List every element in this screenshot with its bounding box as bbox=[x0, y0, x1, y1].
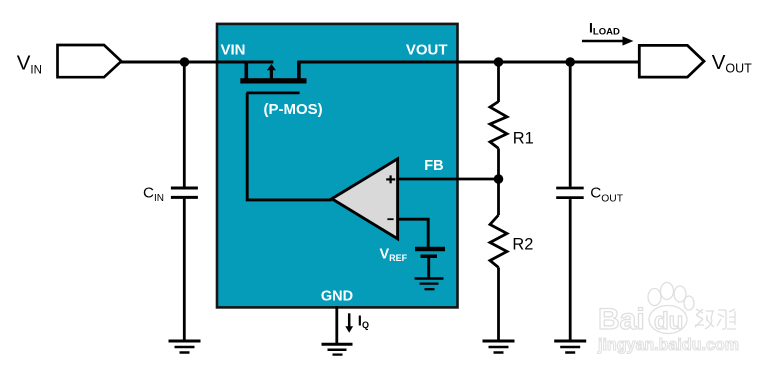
current ILOAD arrow bbox=[582, 40, 624, 42]
svg-text:VIN: VIN bbox=[221, 42, 246, 59]
wire R2 bottom bbox=[497, 267, 500, 341]
node VIN junction bbox=[180, 57, 190, 67]
wire output rail bbox=[297, 60, 639, 63]
svg-text:VIN: VIN bbox=[17, 51, 42, 76]
wire CIN to ground bbox=[183, 199, 186, 340]
ground under COUT bbox=[554, 340, 586, 343]
wire COUT to ground bbox=[569, 199, 572, 341]
svg-text:FB: FB bbox=[424, 158, 443, 174]
resistor R1 bbox=[490, 102, 507, 149]
watermark baidu logo bbox=[597, 283, 739, 355]
svg-text:GND: GND bbox=[321, 288, 353, 304]
svg-text:CIN: CIN bbox=[143, 184, 164, 204]
node COUT junction bbox=[565, 57, 575, 67]
regulator block U1 bbox=[217, 24, 458, 308]
node FB junction bbox=[494, 174, 504, 184]
wire gate to op-amp output bbox=[247, 93, 332, 200]
op-amp U2 error amplifier bbox=[332, 159, 398, 239]
wire minus input to VREF bbox=[398, 219, 429, 247]
wire R2 top bbox=[497, 179, 500, 215]
ground internal VREF bbox=[415, 277, 444, 280]
ground under CIN bbox=[169, 340, 201, 343]
reference VREF battery bbox=[415, 247, 445, 252]
wire FB from op-amp plus input to divider bbox=[398, 178, 498, 181]
wire GND pin bbox=[335, 306, 338, 345]
wire COUT top bbox=[569, 62, 572, 187]
svg-text:R1: R1 bbox=[513, 129, 534, 147]
svg-text:Bai: Bai bbox=[598, 303, 645, 336]
wire CIN branch bbox=[183, 62, 186, 187]
svg-text:(P-MOS): (P-MOS) bbox=[264, 101, 323, 118]
resistor R2 bbox=[490, 215, 507, 267]
svg-text:IQ: IQ bbox=[358, 312, 369, 330]
svg-text:jingyan.baidu.com: jingyan.baidu.com bbox=[597, 335, 739, 354]
capacitor COUT bbox=[556, 187, 584, 190]
connector VOUT flag bbox=[639, 45, 704, 77]
svg-text:ILOAD: ILOAD bbox=[589, 19, 620, 37]
current IQ arrow bbox=[348, 313, 351, 327]
svg-text:VOUT: VOUT bbox=[712, 51, 752, 76]
wire R1 bottom bbox=[497, 148, 500, 179]
wire R1 top bbox=[497, 62, 500, 102]
capacitor CIN bbox=[171, 187, 198, 190]
svg-text:R2: R2 bbox=[512, 235, 533, 253]
wire input rail bbox=[121, 60, 274, 63]
transistor Q1 P-MOS pass FET bbox=[245, 62, 249, 79]
ground under GND pin bbox=[322, 343, 353, 346]
svg-text:VOUT: VOUT bbox=[406, 42, 448, 59]
svg-text:du: du bbox=[654, 308, 683, 335]
svg-text:COUT: COUT bbox=[590, 185, 623, 205]
ground under R2 bbox=[483, 340, 515, 343]
connector VIN flag bbox=[58, 45, 122, 77]
node R1 junction bbox=[494, 57, 504, 67]
